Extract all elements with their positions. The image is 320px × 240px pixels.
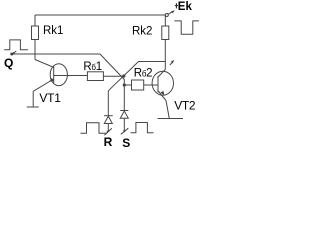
- svg-text:VT2: VT2: [174, 98, 196, 112]
- Q input waveform (positive pulse): [4, 40, 28, 50]
- diode VD1 (R input): [104, 91, 113, 131]
- svg-text:R: R: [104, 135, 113, 149]
- ground VT1: [27, 106, 39, 108]
- wire Q horizontal to bend: [12, 53, 100, 55]
- resistor Rb2: [132, 80, 144, 90]
- wire VT1 emitter down: [32, 91, 34, 107]
- svg-text:Rб1: Rб1: [83, 61, 101, 73]
- node Ek terminal (open circle): [165, 14, 168, 17]
- S tap arrow: [121, 128, 129, 134]
- resistor Rk1: [32, 15, 39, 40]
- resistor Rb1: [87, 72, 103, 81]
- wire diagonal collector VT1 to Rb2 node: [100, 54, 124, 85]
- wire top rail +Ek: [35, 14, 167, 16]
- svg-text:Rб2: Rб2: [134, 68, 152, 80]
- svg-text:VT1: VT1: [39, 91, 61, 105]
- ground VT2: [158, 118, 184, 120]
- Ek waveform (negative pulse): [174, 21, 199, 34]
- wire diagonal collector VT2 to Rb1/R-diode: [108, 62, 165, 91]
- Ek tap arrow: [168, 10, 175, 14]
- node Q input dot: [10, 53, 13, 56]
- node dot B (Rb2 / S diode junction): [123, 83, 126, 86]
- wire Rk2 to VT2 collector: [164, 40, 166, 70]
- svg-text:Rk1: Rk1: [43, 25, 63, 37]
- svg-text:Rk2: Rk2: [132, 26, 152, 38]
- VT2 collector tap arrow: [170, 60, 175, 65]
- label Ek: [175, 3, 178, 8]
- node dot A (Rb1 / diag2 junction): [122, 74, 125, 77]
- wire VT1 base to Rb1: [54, 75, 87, 77]
- wire Rb1 to dot A: [103, 75, 123, 77]
- diode VD2 (S input): [120, 85, 128, 131]
- wire Rb2 to VT2 base: [144, 84, 158, 86]
- S input waveform (positive pulse): [131, 123, 154, 133]
- wire dot B to Rb2: [124, 84, 131, 86]
- wire VT2 emitter down: [166, 101, 169, 119]
- wire Rk1 to collector node: [34, 40, 36, 60]
- transistor VT1: [33, 64, 67, 92]
- R tap arrow: [104, 128, 112, 135]
- svg-text:Ek: Ek: [178, 1, 193, 13]
- wire collector VT1 diagonal: [35, 60, 54, 68]
- resistor Rk2: [162, 15, 169, 40]
- transistor VT2: [152, 70, 173, 101]
- svg-text:Q: Q: [4, 56, 13, 70]
- R input waveform (positive pulse): [81, 123, 107, 134]
- svg-text:S: S: [122, 136, 130, 149]
- Q tap arrow: [12, 51, 17, 54]
